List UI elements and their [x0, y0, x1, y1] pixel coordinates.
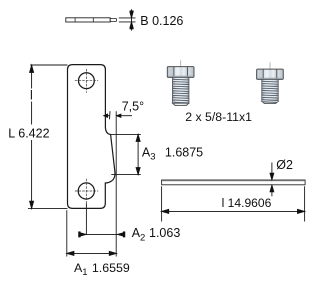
svg-text:l: l — [30, 89, 33, 103]
svg-text:Ø2: Ø2 — [276, 158, 293, 172]
dimension B extension lines — [119, 18, 136, 22]
bracket outline — [68, 65, 116, 209]
dimension l line with arrows — [162, 209, 305, 213]
bolt S2 centerline — [269, 62, 271, 69]
dimension A2 line with arrows — [79, 232, 125, 237]
hole H1 centerlines — [75, 69, 98, 93]
dimension 7.5deg ticks — [110, 111, 117, 256]
dimension l extension lines — [162, 186, 305, 221]
svg-text:7,5°: 7,5° — [122, 99, 144, 113]
bolt S1 centerline — [180, 60, 182, 66]
dimension A1 extension lines — [66, 210, 68, 256]
bolt S2 — [257, 69, 284, 104]
dimension A1 line with arrows — [67, 251, 117, 255]
dimension 7.5deg arrows — [104, 114, 132, 117]
bar I side view — [162, 180, 306, 185]
dimension A2 extension lines — [85, 203, 87, 235]
dimension L extension lines — [28, 65, 68, 209]
hole H1 — [79, 73, 95, 89]
svg-text:2 x 5/8-11x1: 2 x 5/8-11x1 — [185, 110, 252, 124]
dimension A3 line with arrows — [136, 135, 140, 175]
dimension A3 extension lines — [111, 134, 141, 174]
bolt S1 — [167, 67, 194, 106]
hole H2 — [78, 183, 94, 199]
svg-text:l 14.9606: l 14.9606 — [222, 196, 272, 210]
dimension B arrows — [130, 9, 134, 30]
dimension L line with arrows — [30, 65, 34, 208]
plate B top view — [66, 18, 117, 22]
svg-text:L 6.422: L 6.422 — [8, 126, 49, 140]
hole H2 centerlines — [75, 179, 98, 203]
svg-text:B 0.126: B 0.126 — [140, 14, 183, 28]
dimension diameter 2 arrows — [270, 163, 274, 197]
